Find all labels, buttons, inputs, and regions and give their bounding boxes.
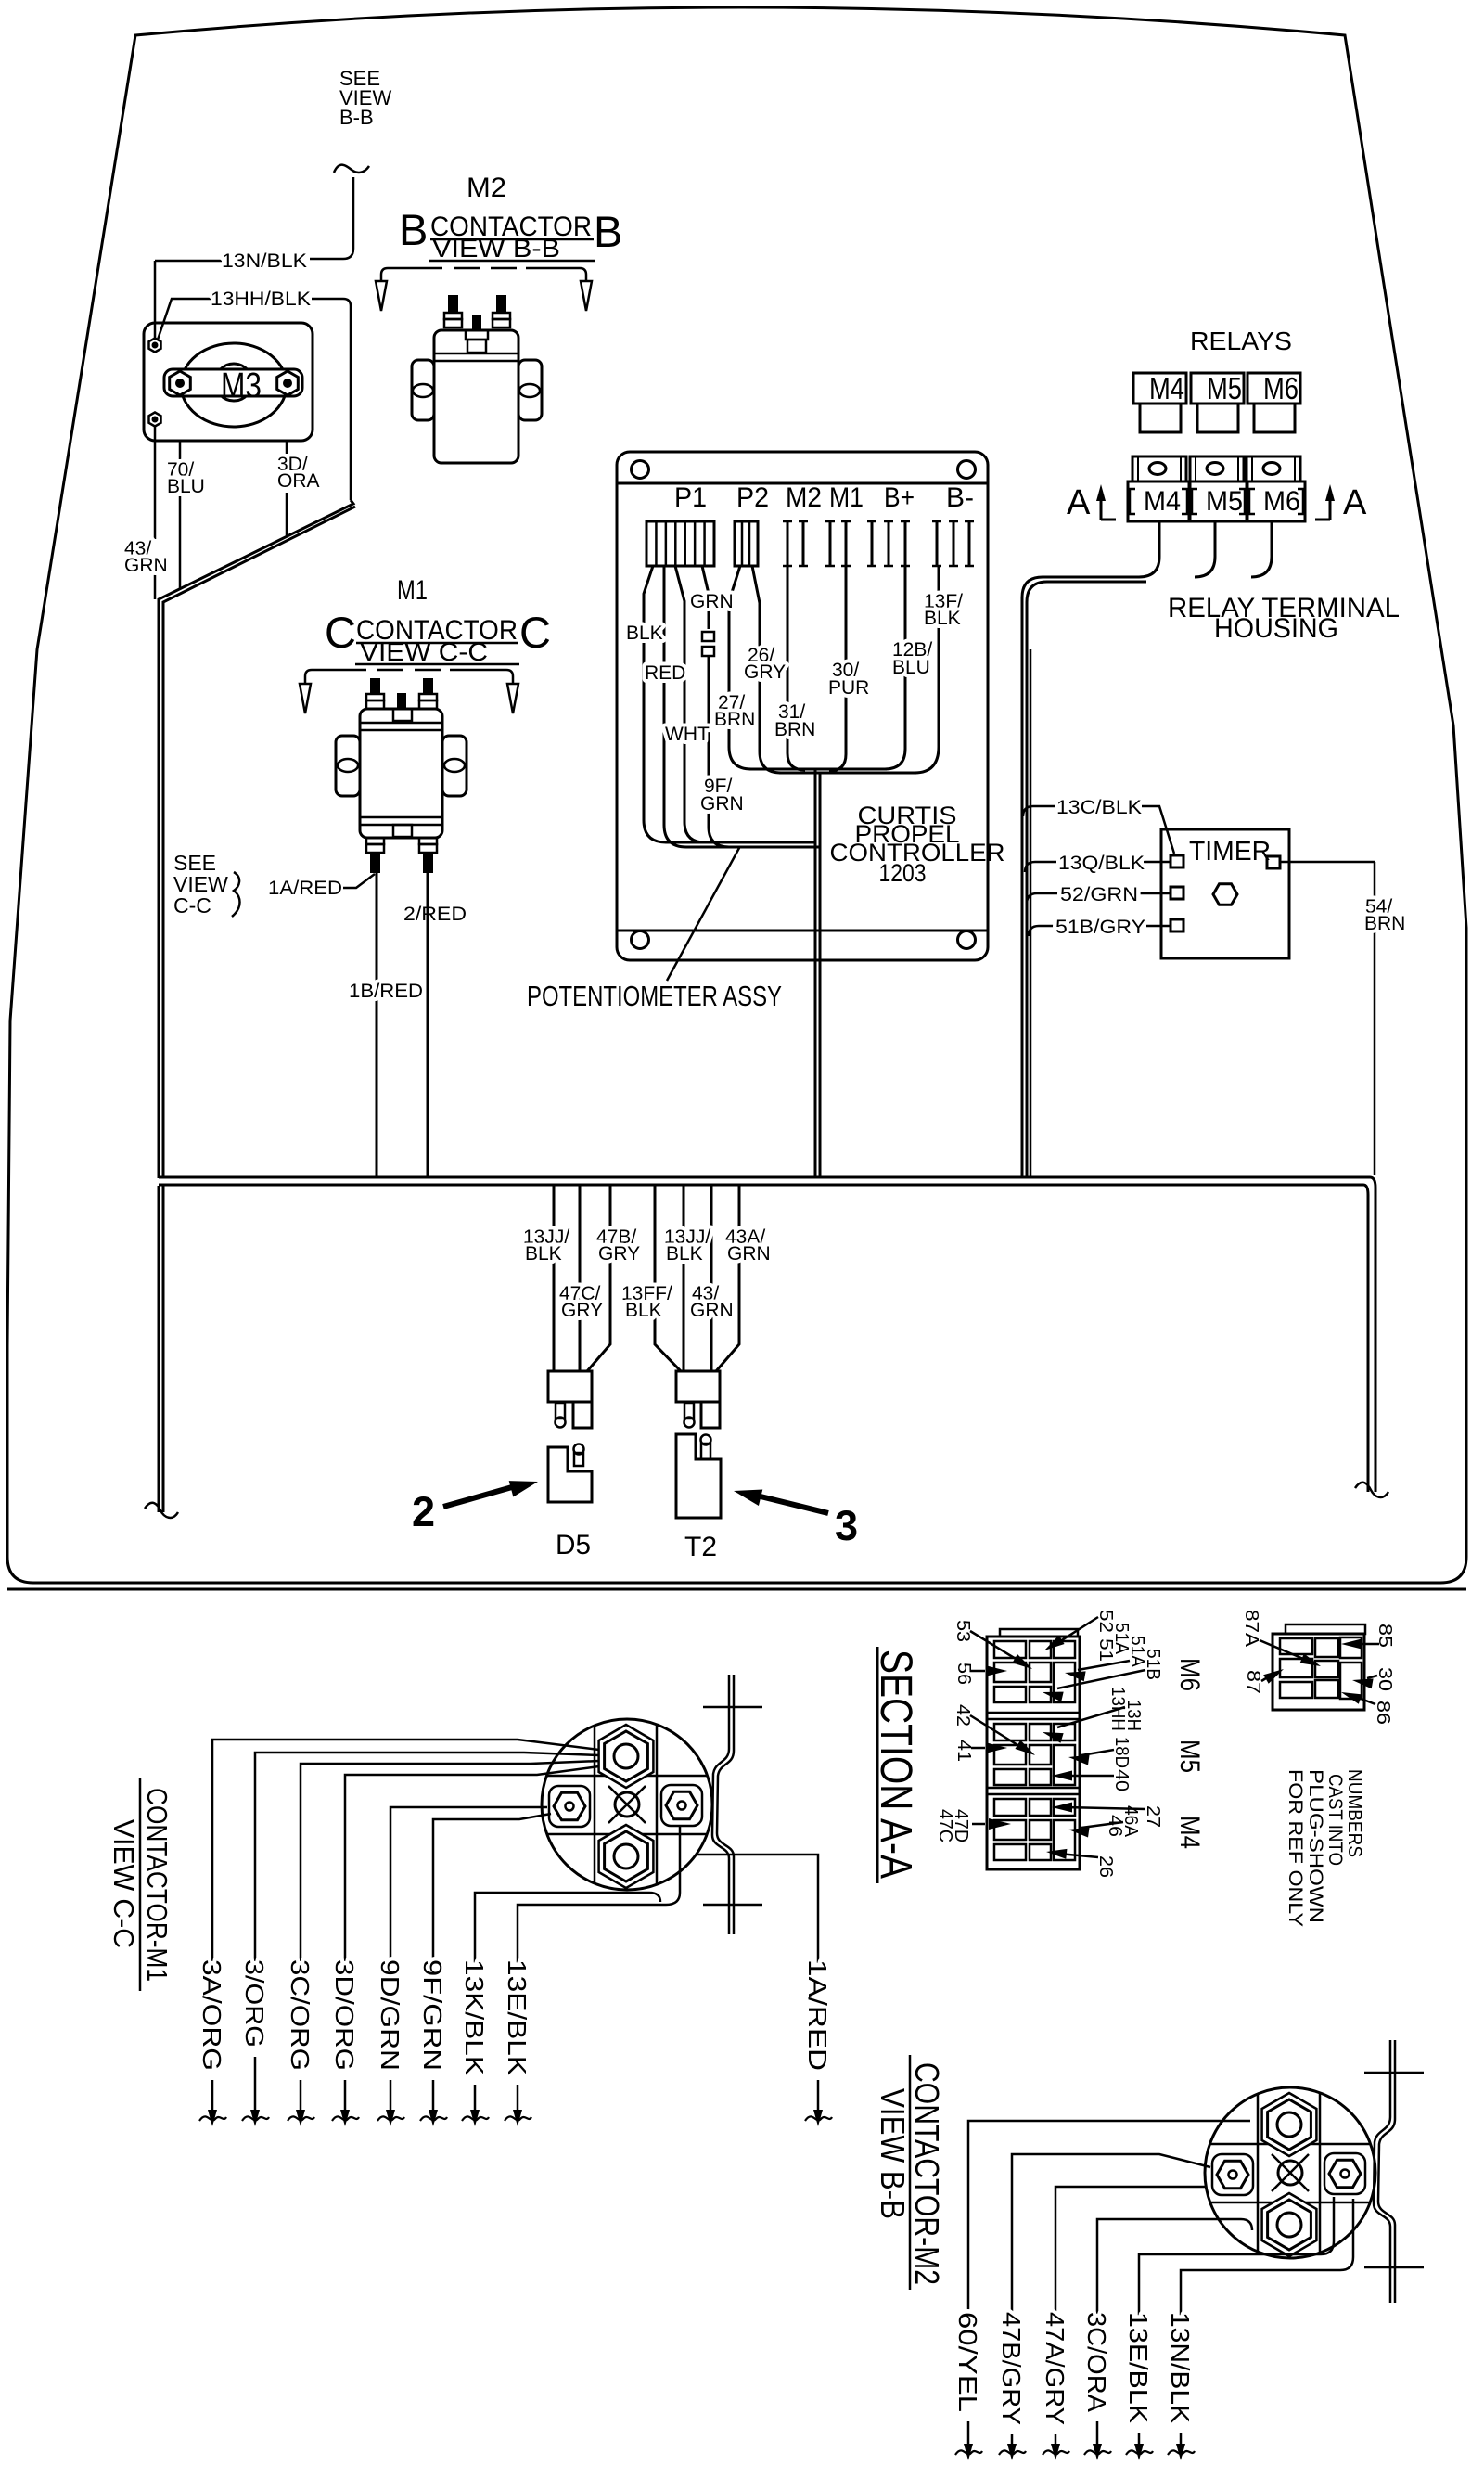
svg-text:BRN: BRN <box>1364 913 1405 934</box>
svg-text:PLUG-SHOWN: PLUG-SHOWN <box>1305 1769 1326 1923</box>
svg-text:BLK: BLK <box>924 608 961 629</box>
svg-text:M5: M5 <box>1207 371 1242 405</box>
svg-text:A: A <box>1067 483 1091 522</box>
svg-text:13H: 13H <box>1123 1700 1144 1731</box>
svg-text:47D: 47D <box>951 1809 971 1842</box>
svg-text:30: 30 <box>1375 1667 1395 1691</box>
svg-text:27: 27 <box>1143 1805 1163 1828</box>
svg-text:NUMBERS: NUMBERS <box>1344 1769 1365 1857</box>
svg-text:RED: RED <box>645 662 685 684</box>
svg-text:51B/GRY: 51B/GRY <box>1055 917 1145 938</box>
svg-text:WHT: WHT <box>665 724 710 745</box>
svg-text:M5: M5 <box>1174 1740 1205 1773</box>
svg-text:B: B <box>594 207 622 256</box>
svg-text:3/ORG: 3/ORG <box>240 1959 269 2048</box>
svg-text:56: 56 <box>953 1663 974 1685</box>
svg-text:1B/RED: 1B/RED <box>349 981 423 1002</box>
svg-text:BRN: BRN <box>774 719 815 740</box>
svg-text:9D/GRN: 9D/GRN <box>376 1959 404 2071</box>
svg-text:FOR REF ONLY: FOR REF ONLY <box>1285 1769 1306 1927</box>
svg-text:M6: M6 <box>1263 371 1298 405</box>
svg-text:GRN: GRN <box>700 793 744 815</box>
svg-text:3A/ORG: 3A/ORG <box>198 1959 226 2071</box>
svg-text:BLK: BLK <box>525 1243 562 1265</box>
svg-text:P2: P2 <box>736 482 769 513</box>
svg-text:13K/BLK: 13K/BLK <box>460 1959 489 2075</box>
svg-text:1A/RED: 1A/RED <box>803 1959 832 2071</box>
svg-text:M6: M6 <box>1263 486 1300 517</box>
svg-text:VIEW B-B: VIEW B-B <box>432 234 560 263</box>
svg-text:9F/GRN: 9F/GRN <box>418 1959 447 2071</box>
svg-text:B+: B+ <box>884 482 915 513</box>
svg-text:87: 87 <box>1243 1670 1263 1694</box>
svg-text:2/RED: 2/RED <box>403 904 467 925</box>
svg-text:60/YEL: 60/YEL <box>953 2312 982 2412</box>
svg-text:M1: M1 <box>829 482 864 513</box>
svg-text:BLU: BLU <box>892 657 930 678</box>
svg-text:RELAYS: RELAYS <box>1190 327 1292 355</box>
svg-text:46: 46 <box>1105 1815 1125 1837</box>
svg-text:3C/ORA: 3C/ORA <box>1082 2312 1111 2412</box>
svg-text:51B: 51B <box>1143 1649 1163 1680</box>
svg-text:M2: M2 <box>467 173 506 203</box>
svg-text:A: A <box>1343 483 1367 522</box>
svg-text:CAST INTO: CAST INTO <box>1324 1774 1346 1866</box>
svg-text:P1: P1 <box>674 482 707 513</box>
svg-text:C: C <box>519 608 551 657</box>
svg-text:41: 41 <box>953 1740 974 1762</box>
svg-text:HOUSING: HOUSING <box>1214 613 1338 644</box>
svg-text:BLK: BLK <box>666 1243 703 1265</box>
svg-text:86: 86 <box>1373 1701 1393 1725</box>
svg-text:13HH/BLK: 13HH/BLK <box>211 289 311 310</box>
svg-text:PUR: PUR <box>828 677 869 699</box>
svg-text:GRN: GRN <box>690 1300 734 1321</box>
svg-text:18D: 18D <box>1111 1737 1132 1768</box>
svg-text:M2: M2 <box>786 482 822 513</box>
svg-text:GRN: GRN <box>124 555 168 576</box>
svg-text:87A: 87A <box>1241 1610 1261 1648</box>
svg-text:M1: M1 <box>397 575 428 606</box>
svg-text:3C/ORG: 3C/ORG <box>286 1959 314 2071</box>
svg-text:3D/ORG: 3D/ORG <box>330 1959 359 2071</box>
svg-text:26: 26 <box>1095 1855 1116 1878</box>
svg-text:C: C <box>325 608 356 657</box>
svg-text:BLU: BLU <box>167 476 205 497</box>
svg-text:B-B: B-B <box>339 106 374 129</box>
svg-text:GRY: GRY <box>744 661 786 683</box>
svg-text:CONTACTOR-M2: CONTACTOR-M2 <box>908 2062 946 2285</box>
svg-text:CONTACTOR-M1: CONTACTOR-M1 <box>141 1788 173 1982</box>
svg-text:C-C: C-C <box>173 893 211 918</box>
svg-text:GRY: GRY <box>561 1300 603 1321</box>
svg-text:40: 40 <box>1111 1769 1132 1791</box>
svg-text:13E/BLK: 13E/BLK <box>503 1959 531 2075</box>
svg-text:VIEW B-B: VIEW B-B <box>874 2088 912 2219</box>
svg-text:TIMER: TIMER <box>1189 837 1271 867</box>
svg-text:GRY: GRY <box>598 1243 640 1265</box>
svg-text:B: B <box>399 205 428 254</box>
svg-text:BLK: BLK <box>626 623 663 644</box>
svg-text:13C/BLK: 13C/BLK <box>1056 797 1142 818</box>
svg-text:BLK: BLK <box>625 1300 662 1321</box>
svg-text:13Q/BLK: 13Q/BLK <box>1058 853 1145 874</box>
svg-text:M4: M4 <box>1144 486 1181 517</box>
svg-text:M5: M5 <box>1206 486 1243 517</box>
svg-text:BRN: BRN <box>714 709 755 730</box>
svg-text:VIEW C-C: VIEW C-C <box>108 1819 140 1948</box>
svg-text:52/GRN: 52/GRN <box>1060 884 1138 905</box>
svg-text:53: 53 <box>953 1620 973 1642</box>
svg-text:B-: B- <box>946 482 974 513</box>
svg-text:13E/BLK: 13E/BLK <box>1124 2312 1153 2423</box>
svg-text:2: 2 <box>412 1488 435 1535</box>
svg-text:13N/BLK: 13N/BLK <box>222 250 307 272</box>
svg-text:GRN: GRN <box>727 1243 771 1265</box>
svg-text:1A/RED: 1A/RED <box>268 878 342 899</box>
svg-text:M3: M3 <box>221 366 262 405</box>
svg-text:POTENTIOMETER ASSY: POTENTIOMETER ASSY <box>527 980 782 1012</box>
svg-text:M4: M4 <box>1174 1816 1205 1849</box>
svg-text:47B/GRY: 47B/GRY <box>997 2312 1026 2425</box>
svg-text:ORA: ORA <box>277 470 320 492</box>
svg-text:D5: D5 <box>556 1530 591 1560</box>
svg-text:42: 42 <box>953 1704 973 1727</box>
svg-text:GRN: GRN <box>690 591 734 612</box>
svg-text:M4: M4 <box>1149 371 1184 405</box>
svg-text:M6: M6 <box>1174 1658 1205 1691</box>
svg-text:3: 3 <box>835 1502 858 1549</box>
svg-text:47A/GRY: 47A/GRY <box>1041 2312 1069 2425</box>
svg-text:T2: T2 <box>684 1532 717 1562</box>
svg-text:VIEW C-C: VIEW C-C <box>360 637 488 666</box>
svg-text:13N/BLK: 13N/BLK <box>1166 2312 1195 2423</box>
svg-text:1203: 1203 <box>879 859 927 887</box>
